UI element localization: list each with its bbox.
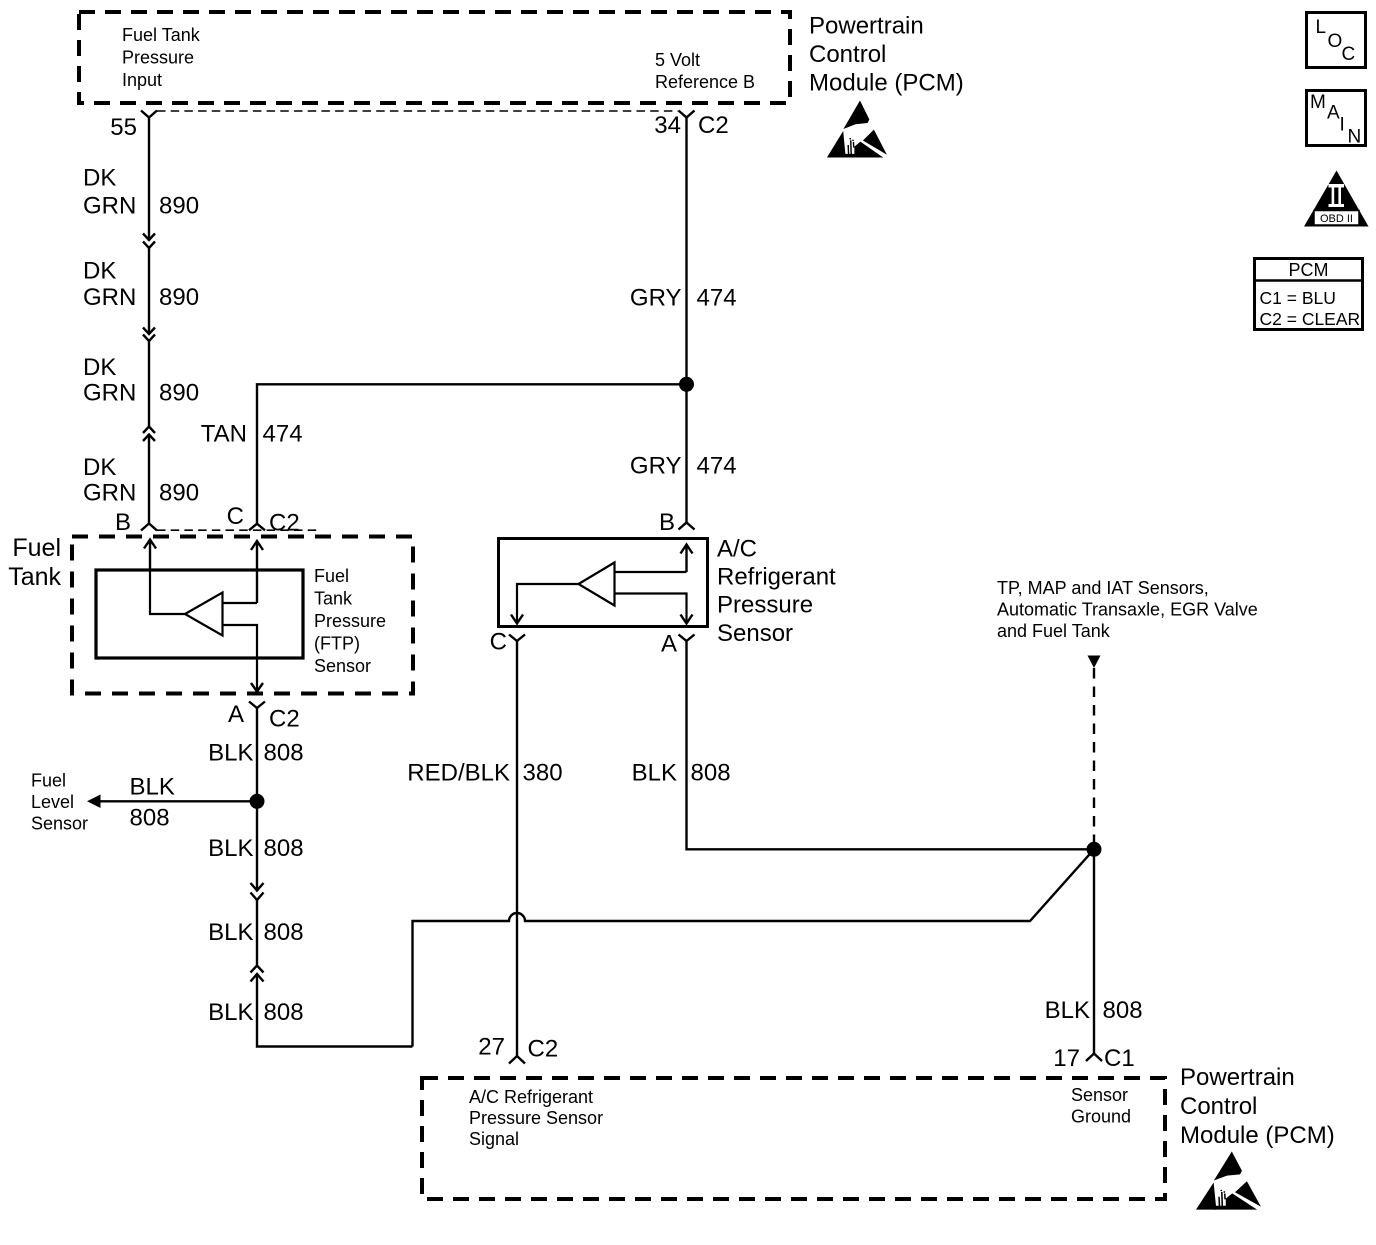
label BLK 808 #1 xyxy=(208,740,303,767)
svg-text:RED/BLK: RED/BLK xyxy=(407,760,510,787)
wire DK GRN 890 segment 2 xyxy=(148,248,150,334)
PCM connector legend box xyxy=(1253,259,1364,330)
svg-text:380: 380 xyxy=(523,760,563,787)
label Fuel Tank Pressure (FTP) Sensor xyxy=(314,566,386,676)
junction node fuel level sensor xyxy=(250,794,265,809)
svg-text:Sensor: Sensor xyxy=(31,814,88,834)
svg-text:A: A xyxy=(661,631,677,658)
label A/C Refrigerant Pressure Sensor xyxy=(717,536,836,648)
label GRY 474 lower xyxy=(630,452,737,479)
A/C sensor amplifier triangle xyxy=(579,563,615,606)
svg-text:Fuel Tank: Fuel Tank xyxy=(122,25,201,45)
connector pin B A/C sensor xyxy=(659,509,695,536)
svg-text:Control: Control xyxy=(809,41,886,68)
junction node TAN/GRY xyxy=(679,377,694,392)
svg-text:I: I xyxy=(1340,115,1345,136)
svg-text:Fuel: Fuel xyxy=(31,771,66,791)
svg-text:808: 808 xyxy=(130,805,170,832)
connector pin C A/C sensor xyxy=(490,629,525,656)
svg-text:B: B xyxy=(115,509,131,536)
arrow out of A/C sensor (C wire) xyxy=(511,615,523,624)
svg-text:27: 27 xyxy=(478,1034,505,1061)
svg-text:474: 474 xyxy=(697,452,737,479)
svg-text:Pressure Sensor: Pressure Sensor xyxy=(469,1108,603,1128)
wire DK GRN 890 segment 1 xyxy=(148,118,150,241)
svg-text:5 Volt: 5 Volt xyxy=(655,50,700,70)
svg-text:Pressure: Pressure xyxy=(122,48,194,68)
wire BLK 808 below fuel tank segment 1 xyxy=(256,708,258,891)
svg-text:C: C xyxy=(1342,44,1356,65)
label DK GRN 890 #4 xyxy=(83,454,199,507)
arrow out of fuel tank (A wire) xyxy=(251,683,263,692)
svg-text:BLK: BLK xyxy=(208,919,253,946)
svg-text:C1: C1 xyxy=(1104,1045,1135,1072)
svg-text:Powertrain: Powertrain xyxy=(1180,1064,1295,1091)
label DK GRN 890 #3 xyxy=(83,354,199,407)
wire DK GRN 890 segment 4 xyxy=(148,435,150,524)
connector pin A A/C sensor xyxy=(661,631,695,658)
fuel tank dashed box xyxy=(72,537,413,694)
label TP, MAP and IAT Sensors xyxy=(997,578,1258,641)
svg-text:Sensor: Sensor xyxy=(1071,1085,1128,1105)
label Fuel Level Sensor xyxy=(31,771,88,834)
svg-text:808: 808 xyxy=(264,835,304,862)
svg-text:890: 890 xyxy=(159,479,199,506)
ESD symbol top xyxy=(827,101,887,158)
label Fuel Tank xyxy=(8,534,61,591)
svg-text:TAN: TAN xyxy=(201,421,247,448)
connector interface line C2 (top) xyxy=(157,110,678,112)
svg-text:GRY: GRY xyxy=(630,452,682,479)
svg-text:Tank: Tank xyxy=(314,589,353,609)
connector pin B fuel tank xyxy=(115,509,157,536)
label BLK 808 #3 xyxy=(208,919,303,946)
svg-text:Tank: Tank xyxy=(8,563,61,591)
A/C sensor internal wiring xyxy=(517,572,687,624)
svg-text:808: 808 xyxy=(264,919,304,946)
wire break arrow down 2 xyxy=(143,328,155,342)
PCM bottom dashed box xyxy=(422,1078,1165,1199)
svg-text:DK: DK xyxy=(83,258,116,285)
label BLK 808 (A/C A wire) xyxy=(632,760,731,787)
svg-text:DK: DK xyxy=(83,454,116,481)
svg-text:808: 808 xyxy=(264,740,304,767)
svg-text:GRN: GRN xyxy=(83,192,136,219)
FTP sensor internal wiring xyxy=(150,570,257,692)
svg-text:BLK: BLK xyxy=(632,760,677,787)
svg-text:Refrigerant: Refrigerant xyxy=(717,564,836,591)
connector pin 55 xyxy=(110,111,157,142)
svg-text:34: 34 xyxy=(654,112,681,139)
connector pin 34 C2 xyxy=(654,111,728,140)
label Sensor Ground xyxy=(1071,1085,1131,1127)
svg-text:PCM: PCM xyxy=(1289,260,1329,280)
svg-text:Fuel: Fuel xyxy=(12,534,61,562)
svg-text:OBD II: OBD II xyxy=(1320,213,1353,225)
wire break arrow up (BLK) xyxy=(251,966,264,982)
svg-text:808: 808 xyxy=(1103,997,1143,1024)
wire RED/BLK 380 xyxy=(516,641,518,1056)
svg-text:C: C xyxy=(490,629,507,656)
svg-text:A/C: A/C xyxy=(717,536,757,563)
wire break arrow down 1 xyxy=(143,234,155,249)
wire DK GRN 890 segment 3 xyxy=(148,341,150,427)
arrow into fuel tank (B wire) xyxy=(144,540,156,571)
wire BLK 808 below fuel tank segment 2 xyxy=(256,900,258,966)
label DK GRN 890 #2 xyxy=(83,258,199,311)
svg-text:GRN: GRN xyxy=(83,284,136,311)
svg-text:Signal: Signal xyxy=(469,1129,519,1149)
wire BLK 808 riser and run to junction (with hop) xyxy=(413,849,1095,1046)
dashed wire to TP MAP IAT sensors xyxy=(1088,656,1101,843)
svg-text:BLK: BLK xyxy=(208,999,253,1026)
LOC box xyxy=(1307,13,1366,68)
svg-text:DK: DK xyxy=(83,164,116,191)
svg-text:Control: Control xyxy=(1180,1093,1257,1120)
label Powertrain Control Module (PCM) bottom xyxy=(1180,1064,1335,1149)
arrow into A/C sensor (B wire) xyxy=(681,545,693,573)
svg-text:DK: DK xyxy=(83,354,116,381)
connector pin 27 C2 xyxy=(478,1034,558,1064)
label 5 Volt Reference B xyxy=(655,50,755,92)
junction node sensor ground xyxy=(1087,842,1102,857)
svg-text:BLK: BLK xyxy=(130,774,175,801)
svg-text:A: A xyxy=(1327,103,1340,124)
svg-text:Pressure: Pressure xyxy=(717,592,813,619)
FTP sensor box xyxy=(96,570,303,658)
connector pin A / C2 fuel tank xyxy=(228,701,300,733)
svg-text:474: 474 xyxy=(263,421,303,448)
svg-text:Automatic Transaxle, EGR Valve: Automatic Transaxle, EGR Valve xyxy=(997,600,1258,620)
wire GRY 474 xyxy=(685,118,687,523)
svg-text:Level: Level xyxy=(31,792,74,812)
connector pin 17 C1 xyxy=(1053,1045,1134,1072)
svg-text:Ground: Ground xyxy=(1071,1107,1131,1127)
svg-text:C2: C2 xyxy=(698,112,729,139)
svg-text:C2 = CLEAR: C2 = CLEAR xyxy=(1260,309,1361,329)
svg-text:C2: C2 xyxy=(528,1036,559,1063)
svg-text:GRY: GRY xyxy=(630,284,682,311)
svg-text:L: L xyxy=(1316,17,1327,38)
svg-text:890: 890 xyxy=(159,192,199,219)
svg-text:O: O xyxy=(1328,31,1343,52)
connector pin C / C2 fuel tank xyxy=(227,503,300,537)
svg-text:A: A xyxy=(228,701,244,728)
svg-text:808: 808 xyxy=(691,760,731,787)
label Powertrain Control Module (PCM) top xyxy=(809,13,964,97)
connector interface line fuel tank C2 xyxy=(157,529,318,531)
svg-text:GRN: GRN xyxy=(83,379,136,406)
wire BLK 808 below fuel tank segment 3 xyxy=(257,974,413,1047)
wire fuel level sensor BLK 808 xyxy=(87,795,257,809)
svg-text:474: 474 xyxy=(697,284,737,311)
label Fuel Tank Pressure Input xyxy=(122,25,201,90)
svg-text:BLK: BLK xyxy=(1045,997,1090,1024)
PCM top dashed box xyxy=(79,12,790,103)
svg-text:Sensor: Sensor xyxy=(717,620,793,647)
svg-text:TP, MAP and IAT Sensors,: TP, MAP and IAT Sensors, xyxy=(997,578,1209,598)
svg-text:Powertrain: Powertrain xyxy=(809,13,924,40)
svg-text:B: B xyxy=(659,509,675,536)
svg-text:GRN: GRN xyxy=(83,479,136,506)
label A/C Refrigerant Pressure Sensor Signal xyxy=(469,1087,603,1149)
wire BLK 808 from A/C sensor A xyxy=(687,641,1095,849)
svg-text:Sensor: Sensor xyxy=(314,656,371,676)
label BLK 808 #2 xyxy=(208,835,303,862)
svg-text:Input: Input xyxy=(122,70,162,90)
ESD symbol bottom xyxy=(1196,1152,1261,1210)
svg-text:890: 890 xyxy=(159,284,199,311)
arrow out of A/C sensor (A wire) xyxy=(681,615,693,624)
MAIN box xyxy=(1307,91,1366,148)
svg-text:Fuel: Fuel xyxy=(314,566,349,586)
svg-text:Module (PCM): Module (PCM) xyxy=(1180,1122,1335,1149)
label RED/BLK 380 xyxy=(407,760,562,787)
label BLK 808 (pin 17 wire) xyxy=(1045,997,1143,1024)
svg-text:M: M xyxy=(1310,92,1326,113)
wire break arrow up 3 xyxy=(143,427,155,442)
wire break arrow down (BLK) xyxy=(251,883,264,900)
OBD II symbol xyxy=(1304,171,1369,227)
svg-text:Pressure: Pressure xyxy=(314,611,386,631)
svg-text:808: 808 xyxy=(264,999,304,1026)
svg-text:BLK: BLK xyxy=(208,835,253,862)
svg-text:C2: C2 xyxy=(269,510,300,537)
svg-text:and Fuel Tank: and Fuel Tank xyxy=(997,621,1111,641)
wire TAN 474 xyxy=(257,384,687,523)
label BLK 808 #4 xyxy=(208,999,303,1026)
label TAN 474 xyxy=(201,421,303,448)
svg-text:17: 17 xyxy=(1053,1045,1080,1072)
svg-text:(FTP): (FTP) xyxy=(314,634,360,654)
label GRY 474 upper xyxy=(630,284,737,311)
svg-text:BLK: BLK xyxy=(208,740,253,767)
arrow into fuel tank (C wire) xyxy=(251,541,263,603)
svg-text:Module (PCM): Module (PCM) xyxy=(809,70,964,97)
svg-text:C2: C2 xyxy=(269,706,300,733)
svg-text:890: 890 xyxy=(159,379,199,406)
svg-text:A/C Refrigerant: A/C Refrigerant xyxy=(469,1087,593,1107)
A/C refrigerant pressure sensor box xyxy=(499,539,708,627)
label DK GRN 890 #1 xyxy=(83,164,199,219)
svg-text:C: C xyxy=(227,503,244,530)
svg-text:Reference B: Reference B xyxy=(655,72,755,92)
svg-text:N: N xyxy=(1348,127,1362,148)
svg-text:55: 55 xyxy=(110,114,137,141)
svg-text:C1 = BLU: C1 = BLU xyxy=(1260,288,1336,308)
wire BLK 808 to pin 17 xyxy=(1093,849,1095,1053)
FTP sensor amplifier triangle xyxy=(185,593,223,636)
